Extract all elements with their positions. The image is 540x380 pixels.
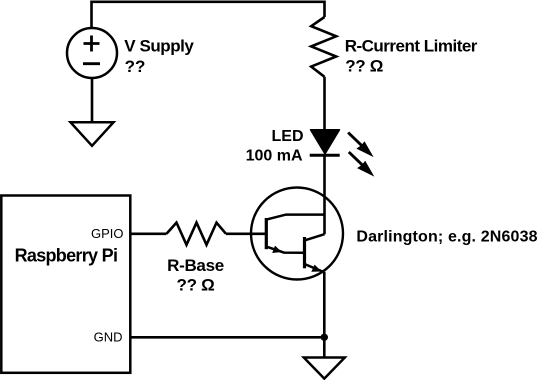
wire top rail from V supply to resistor — [92, 2, 325, 29]
transistor U1 Darlington circle — [251, 188, 343, 280]
transistor Q1 base bar — [265, 218, 268, 249]
Q1 emitter arrow — [272, 246, 282, 253]
svg-text:LED: LED — [272, 128, 304, 145]
transistor Q1 emitter — [266, 247, 304, 253]
svg-text:Darlington; e.g. 2N6038: Darlington; e.g. 2N6038 — [356, 229, 537, 246]
svg-text:??: ?? — [125, 57, 146, 76]
svg-text:100 mA: 100 mA — [246, 147, 303, 164]
wire GND rail from Raspberry Pi — [131, 336, 325, 339]
plus sign — [84, 36, 100, 52]
wire base (R-Base to Q1) — [226, 233, 265, 236]
LED anode triangle — [311, 130, 340, 154]
LED cathode bar — [310, 154, 340, 157]
LED light arrow 2 — [349, 152, 375, 177]
transistor Q1 collector — [266, 215, 324, 220]
resistor R-Base — [167, 223, 227, 245]
wire resistor to LED — [323, 77, 326, 131]
ground under V supply — [71, 122, 114, 146]
svg-text:?? Ω: ?? Ω — [345, 57, 383, 76]
Q2 emitter arrow — [311, 265, 321, 272]
svg-text:V Supply: V Supply — [124, 36, 194, 55]
junction dot — [321, 334, 328, 341]
LED light arrow 1 — [348, 133, 374, 158]
svg-text:R-Current Limiter: R-Current Limiter — [345, 37, 478, 56]
wire LED to collector node — [323, 155, 326, 234]
wire emitter to ground junction — [323, 272, 326, 357]
Raspberry Pi box — [1, 196, 130, 373]
transistor Q2 emitter — [305, 264, 325, 272]
svg-text:GND: GND — [94, 330, 123, 345]
svg-text:GPIO: GPIO — [91, 226, 124, 241]
svg-text:?? Ω: ?? Ω — [177, 276, 215, 295]
voltage source V Supply — [67, 28, 117, 78]
svg-text:R-Base: R-Base — [167, 256, 224, 275]
wire V supply to ground — [91, 78, 94, 122]
svg-text:Raspberry Pi: Raspberry Pi — [15, 246, 118, 266]
transistor Q2 collector — [305, 234, 325, 240]
minus sign — [83, 62, 100, 65]
transistor Q2 base bar — [303, 237, 306, 268]
ground bottom — [304, 358, 345, 379]
resistor R-Current Limiter — [311, 17, 336, 77]
wire GPIO to R-Base — [131, 233, 167, 236]
